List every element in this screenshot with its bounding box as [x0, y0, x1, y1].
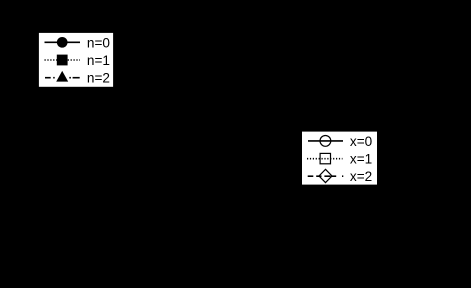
svg-text:x=2: x=2: [350, 169, 372, 184]
legend 1 entry n=2 line (dash-dot): [45, 77, 80, 79]
legend 1 entry n=0 marker (filled circle): [57, 37, 68, 48]
legend 2 entry x=2 marker (open diamond): [319, 169, 332, 182]
legend 2 entry x=2 line (dash-dot): [308, 175, 344, 177]
legend 2 entry x=0 marker (open circle): [320, 136, 331, 147]
legend box 1 (n legend): [39, 33, 113, 87]
svg-text:x=1: x=1: [350, 152, 372, 167]
legend 1 entry n=1 line (dotted): [45, 59, 81, 61]
legend 1 entry n=2 marker (filled triangle): [56, 71, 68, 82]
legend box 2 (x legend): [302, 132, 377, 185]
legend 2 entry x=0 line (solid): [308, 140, 343, 142]
legend 2 entry x=1 marker (open square): [320, 153, 330, 163]
svg-text:n=0: n=0: [87, 35, 110, 50]
legend 1 entry n=1 marker (filled square): [57, 55, 68, 66]
legend 1 entry n=0 line (solid): [45, 41, 81, 43]
svg-text:x=0: x=0: [350, 134, 373, 149]
svg-text:n=1: n=1: [87, 53, 110, 68]
svg-text:n=2: n=2: [87, 71, 110, 86]
legend 2 entry x=1 line (dotted): [307, 158, 343, 160]
